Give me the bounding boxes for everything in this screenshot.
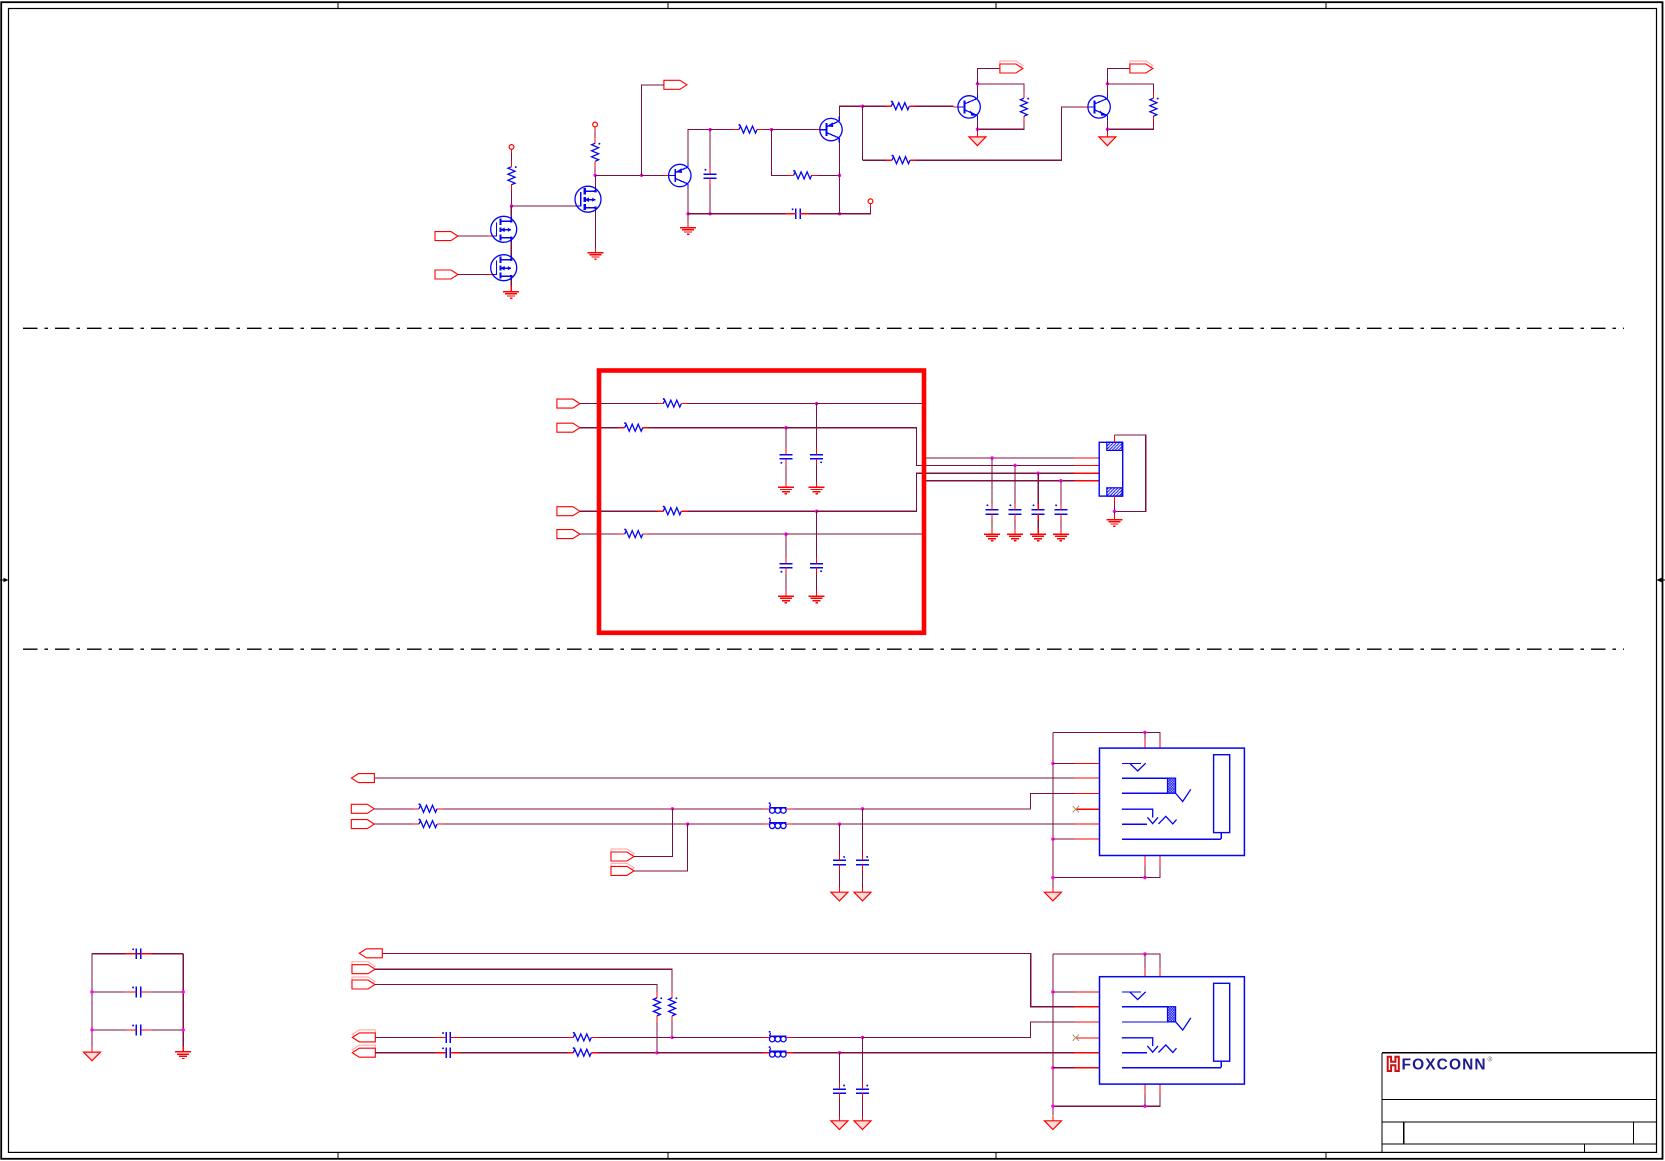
resistor R8: [1150, 92, 1159, 122]
resistor R15: [669, 992, 678, 1022]
junction C1 bottom: [708, 212, 711, 215]
junction bypass C8: [1013, 464, 1016, 467]
ground under C6: [778, 591, 794, 603]
wire EN2 to R16: [375, 985, 657, 992]
capacitor C7: [986, 504, 999, 520]
wire R11 to node J: [687, 510, 816, 512]
connector J2 body: [1100, 748, 1245, 855]
capacitor C16: [435, 1032, 461, 1043]
connector J3 pin2 lead: [1075, 1006, 1100, 1008]
resistor R13: [413, 803, 443, 812]
transistor Q3: [958, 94, 980, 120]
wire Q4 base pin: [1084, 106, 1088, 108]
ground under Q1: [680, 222, 696, 234]
wire VCC2 pin: [594, 127, 596, 132]
connector J3 shield pin top a: [1144, 968, 1146, 977]
wire R16 to node O: [656, 1022, 658, 1053]
wire shield bus 2: [1052, 732, 1054, 887]
junction shield bottom 3: [1143, 1105, 1146, 1108]
svg-text:FOXCONN: FOXCONN: [1402, 1057, 1487, 1074]
capacitor C1: [704, 168, 717, 184]
wire C16 to R17: [459, 1036, 567, 1038]
connector J1 pin4 lead: [1075, 480, 1100, 482]
node H junction: [815, 402, 818, 405]
wire Q1 emitter up: [688, 130, 710, 163]
wire bottom rail right: [809, 213, 839, 215]
connector J3 internal id pin: [1122, 1038, 1177, 1053]
wire Q4 emitter to ground: [1106, 129, 1108, 132]
wire node K to connector line4: [786, 481, 1075, 534]
wire cap drop a 3: [862, 1037, 864, 1083]
ferrite bead FB3a: [763, 1031, 793, 1042]
junction Q4 emitter: [1106, 128, 1109, 131]
wire USB1 dp to R13: [374, 808, 413, 810]
border zone tick bottom 2: [667, 1152, 669, 1158]
wire to C9: [1037, 473, 1039, 504]
connector J2 pin5 lead: [1075, 823, 1100, 825]
connector J3 pin4 lead: [1076, 1037, 1100, 1039]
node F junction: [838, 174, 841, 177]
wire R13 to node L: [443, 808, 672, 810]
port SIG2: [557, 423, 580, 432]
wire C8 to ground: [1014, 520, 1016, 534]
connector J2 shield pin top b: [1159, 739, 1161, 748]
capacitor C6: [779, 558, 792, 574]
junction bypass C9: [1037, 472, 1040, 475]
port IN1: [435, 232, 458, 241]
junction bypass C7: [990, 456, 993, 459]
wire to C10: [1060, 481, 1062, 504]
ferrite bead FB2a: [763, 802, 793, 813]
wire R10 to node I: [649, 427, 786, 429]
junction node F bottom: [838, 212, 841, 215]
node M junction: [686, 822, 689, 825]
wire Q3 collector to OUT2: [977, 69, 1000, 84]
ground under C3: [778, 482, 794, 494]
junction bank right 1: [182, 990, 185, 993]
wire node G rail to R4: [863, 159, 887, 161]
wire VCC2 to R2: [594, 132, 596, 140]
wire USB2 vbus line: [382, 953, 1074, 1006]
wire C9 to ground: [1037, 520, 1039, 534]
title block top line: [1382, 1052, 1656, 1054]
wire M1 drain to node A: [510, 206, 512, 217]
resistor R16: [653, 992, 662, 1022]
wire node I to connector line2: [786, 428, 1075, 466]
wire Q3 collector up: [976, 84, 978, 94]
junction shield bottom 2: [1143, 876, 1146, 879]
title block divider 2: [1382, 1121, 1656, 1123]
capacitor C9: [1032, 504, 1045, 520]
capacitor C2b: [833, 854, 846, 870]
capacitor C18: [125, 948, 151, 959]
wire USB1 vbus line: [375, 777, 1075, 779]
connector J1 pin1 lead: [1075, 457, 1100, 459]
wire node A to M3 gate: [512, 205, 577, 207]
wire FB3b to node: [793, 1052, 840, 1054]
wire node G down: [862, 106, 864, 160]
wire cap bank row3 left: [92, 1029, 125, 1031]
wire Q1 collector to ground: [687, 214, 689, 228]
power symbol VCC2: [593, 122, 598, 127]
resistor R7: [788, 170, 818, 179]
connector J1 pin2 lead: [1075, 464, 1100, 466]
connector J2 internal id pin: [1122, 809, 1177, 824]
connector J1 body: [1099, 442, 1123, 496]
wire shield stub bottom a 3: [1144, 1095, 1146, 1107]
wire M2 source to ground: [510, 280, 512, 292]
ground under Q4: [1099, 132, 1116, 146]
wire R3 to Q3 base: [915, 105, 953, 107]
wire C6 to ground: [785, 574, 787, 597]
wire J1 shield to ground: [1113, 511, 1115, 519]
port OUT2: [1000, 61, 1023, 73]
ferrite bead FB2b: [763, 818, 793, 829]
resistor R10: [619, 422, 649, 431]
connector J3 shield pin bottom a: [1144, 1084, 1146, 1095]
connector J1 pin3 lead: [1075, 472, 1100, 474]
wire Q3 base pin: [954, 106, 958, 108]
ground under C4: [809, 482, 825, 494]
junction data line b 3: [838, 1051, 841, 1054]
ground under C2a: [854, 887, 871, 901]
connector J3 shield pin top b: [1159, 968, 1161, 977]
wire M3 gate pin: [577, 205, 581, 207]
port USB1-DMS: [611, 863, 634, 875]
ground cap bank left: [84, 1047, 101, 1061]
wire R9 to node H: [687, 403, 816, 405]
wire cap a to ground 2: [862, 871, 864, 888]
capacitor C4: [810, 449, 823, 465]
node L junction: [671, 807, 674, 810]
wire node K to C6: [785, 534, 787, 557]
wire SIG1 to R9: [580, 403, 657, 405]
wire FB2a to node: [793, 808, 863, 810]
port USB1-VBUS: [351, 774, 374, 783]
port USB1-DP: [351, 804, 374, 813]
svg-text:®: ®: [1488, 1056, 1493, 1064]
ground under M3: [588, 247, 604, 259]
capacitor C17: [435, 1047, 461, 1058]
junction bank left 2: [90, 1028, 93, 1031]
connector J2 internal data pair: [1122, 778, 1191, 801]
border zone tick top 4: [1325, 2, 1327, 8]
connector J3 pin1 lead: [1075, 991, 1100, 993]
connector J2 pin1 lead: [1075, 762, 1100, 764]
ground under C5: [809, 591, 825, 603]
border center arrow right: [1657, 578, 1665, 582]
no-connect pin4 3: [1073, 1035, 1079, 1041]
node O junction: [655, 1051, 658, 1054]
port USB1-DPS: [611, 849, 634, 861]
wire R12 to node K: [649, 533, 786, 535]
wire USB2 dm to C cap: [375, 1052, 437, 1054]
power symbol VCC3: [868, 199, 873, 204]
wire shield stub bottom a 2: [1144, 866, 1146, 878]
border center arrow left: [0, 578, 9, 582]
wire shield top 3: [1053, 954, 1160, 968]
wire node C to OUT1: [642, 85, 664, 176]
no-connect pin4 2: [1073, 806, 1079, 812]
wire C7 to ground: [991, 520, 993, 534]
wire SIG3 to R11: [580, 510, 657, 512]
port SIG4: [557, 530, 580, 539]
wire data a to jog 3: [863, 1022, 1075, 1038]
wire cap bank row3 right: [151, 1029, 183, 1031]
wire rail to PWR3: [840, 208, 871, 213]
wire M3 drain to node B: [595, 175, 597, 187]
wire node F to bottom rail: [839, 175, 841, 213]
wire C10 to ground: [1060, 520, 1062, 534]
wire R1 to node A: [511, 191, 513, 206]
wire Q4 emitter down: [1106, 120, 1108, 129]
connector J2 pin4 lead: [1076, 808, 1100, 810]
border zone tick bottom 3: [995, 1152, 997, 1158]
ground under C8: [1007, 529, 1023, 541]
wire C5 to ground: [816, 574, 818, 597]
ground under M2: [503, 286, 519, 298]
resistor R1: [508, 161, 517, 191]
border zone tick top 1: [337, 2, 339, 8]
junction Q3 emitter: [976, 128, 979, 131]
wire data a to jog 2: [863, 793, 1075, 809]
wire FB2b to node: [793, 823, 840, 825]
wire C4 to ground: [816, 465, 818, 488]
title block divider 3: [1382, 1143, 1656, 1145]
connector J2 shield pin top a: [1144, 739, 1146, 748]
wire node D to R6: [710, 129, 733, 131]
node K junction: [784, 532, 787, 535]
wire EN1 to R15: [375, 969, 672, 992]
wire node I to C3: [785, 428, 787, 449]
resistor R2: [592, 137, 601, 167]
connector J1 shield pin top: [1113, 435, 1115, 442]
connector J1 shield pad bottom: [1107, 488, 1122, 496]
title block vertical b: [1633, 1122, 1635, 1144]
wire node H to C4: [816, 404, 818, 449]
section divider dash-dot upper: [23, 327, 1624, 329]
wire VCC1 pin: [511, 149, 513, 153]
wire cap bank row2 left: [92, 991, 125, 993]
wire Q3 emitter to ground: [976, 129, 978, 132]
connector J2 shield pin bottom a: [1144, 856, 1146, 867]
junction data line a 3: [861, 1036, 864, 1039]
junction shield bus bottom 2: [1051, 876, 1054, 879]
junction shield top 2: [1143, 731, 1146, 734]
port USB2-EN2: [352, 977, 375, 989]
port SIG1: [557, 399, 580, 408]
wire shield top 2: [1053, 732, 1160, 739]
capacitor C3b: [833, 1083, 846, 1099]
wire IN2 to M2 gate: [458, 274, 488, 276]
wire R8 to Q4 emitter: [1107, 122, 1153, 130]
border zone tick bottom 1: [337, 1152, 339, 1158]
wire to C7: [991, 458, 993, 504]
wire cap bank top: [92, 953, 183, 955]
resistor R9: [657, 398, 687, 407]
junction data line b 2: [838, 822, 841, 825]
junction J1 shield: [1113, 510, 1116, 513]
wire node N to FB: [672, 1036, 763, 1038]
wire C1 to bottom rail: [709, 184, 711, 213]
wire M2 gate pin: [488, 274, 493, 276]
wire bottom rail left: [688, 213, 787, 215]
wire cap drop b 3: [838, 1053, 840, 1083]
wire shield bottom 3: [1053, 1095, 1160, 1107]
resistor R17: [567, 1032, 597, 1041]
junction pin6 3: [1051, 1066, 1054, 1069]
title block divider 1: [1382, 1098, 1656, 1100]
ground shield 2: [1044, 887, 1061, 901]
wire cap b to ground 3: [838, 1099, 840, 1116]
wire shield bottom 2: [1053, 866, 1160, 878]
wire M1 source to M2 drain: [510, 242, 512, 256]
wire shield stub top a 2: [1144, 732, 1146, 739]
ground under C2b: [831, 887, 848, 901]
port USB1-DM: [351, 820, 374, 829]
node E junction: [770, 128, 773, 131]
resistor R6: [733, 124, 763, 133]
capacitor C5: [810, 558, 823, 574]
junction bypass C10: [1059, 479, 1062, 482]
ground under C7: [984, 529, 1000, 541]
transistor Q2: [820, 117, 842, 143]
wire Q2 base pin: [816, 129, 820, 131]
wire C3 to ground: [785, 465, 787, 488]
ground under C3b: [831, 1116, 848, 1130]
wire PWR3 pin: [870, 204, 872, 209]
node A junction: [510, 204, 513, 207]
connector J2 shield pin bottom b: [1159, 856, 1161, 867]
wire data b to pin5 3: [839, 1052, 1074, 1054]
capacitor C10: [1054, 504, 1067, 520]
wire node H to connector line1: [817, 404, 1075, 458]
connector J3 shield pin bottom b: [1159, 1084, 1161, 1095]
connector J2 internal gnd line: [1122, 833, 1221, 840]
wire shield bus 3: [1052, 954, 1054, 1116]
junction shield top 3: [1143, 952, 1146, 955]
wire node O to FB: [657, 1052, 763, 1054]
junction pin1 3: [1051, 990, 1054, 993]
wire R5 to Q3 emitter: [977, 122, 1024, 130]
wire M3 source to ground: [595, 212, 597, 253]
wire pin6 3: [1053, 1067, 1075, 1069]
wire Q3 emitter down: [976, 120, 978, 129]
connector J3 pin5 lead: [1075, 1052, 1100, 1054]
wire cap bank left rail: [91, 954, 93, 1048]
wire Q1 base pin: [664, 175, 668, 177]
title block vertical a: [1403, 1122, 1405, 1144]
border zone tick bottom 4: [1325, 1152, 1327, 1158]
wire pin1 3: [1053, 991, 1075, 993]
node J junction: [815, 510, 818, 513]
junction bank left 1: [90, 990, 93, 993]
wire M1 gate pin: [488, 235, 493, 237]
node N junction: [670, 1036, 673, 1039]
wire J1 shield pin bottom to node: [1113, 504, 1115, 512]
wire R7 to node F: [818, 174, 840, 176]
wire R14 to node M: [443, 823, 688, 825]
connector J3 internal data pair: [1122, 1007, 1191, 1030]
capacitor C20: [125, 1025, 151, 1036]
Foxconn logo H mark: [1388, 1057, 1399, 1071]
resistor R3: [885, 101, 915, 110]
connector J1 shield pin bottom: [1113, 496, 1115, 504]
wire SIG4 to R12: [580, 533, 619, 535]
connector J2 receptacle: [1214, 755, 1230, 833]
port OUT1: [664, 80, 687, 89]
wire pin1 2: [1053, 762, 1075, 764]
transistor Q1: [669, 163, 691, 189]
connector J2 pin2 lead: [1075, 777, 1100, 779]
ground under Q3: [969, 132, 986, 146]
resistor R4: [886, 155, 916, 164]
wire cap bank right rail: [182, 954, 184, 1047]
node D junction: [708, 128, 711, 131]
title block left line: [1381, 1053, 1383, 1153]
node G junction: [861, 105, 864, 108]
power symbol VCC1: [509, 145, 514, 150]
connector J3 pin6 lead: [1075, 1067, 1100, 1069]
wire to C8: [1014, 465, 1016, 504]
wire IN1 to M1 gate: [458, 235, 488, 237]
capacitor C2: [785, 208, 811, 219]
connector J3 receptacle: [1214, 983, 1230, 1061]
capacitor C8: [1009, 504, 1022, 520]
wire cap a to ground 3: [862, 1099, 864, 1116]
wire node G to R3: [863, 105, 886, 107]
wire SIG2 to R10: [580, 427, 619, 429]
wire FB3a to node: [793, 1036, 863, 1038]
transistor Q4: [1088, 94, 1110, 120]
connector J1 shield pad top: [1107, 442, 1122, 450]
junction pin1 2: [1051, 762, 1054, 765]
node I junction: [784, 426, 787, 429]
ground under C10: [1053, 529, 1069, 541]
ground cap bank right: [175, 1046, 191, 1058]
wire node E to Q2 base: [771, 129, 815, 131]
wire node M to FB: [688, 823, 763, 825]
wire cap bank row2 right: [151, 991, 183, 993]
mosfet M2: [491, 255, 517, 281]
junction Q3 collector: [976, 82, 979, 85]
capacitor C19: [125, 987, 151, 998]
resistor R18: [567, 1047, 597, 1056]
wire USB2 dp to C cap: [375, 1036, 437, 1038]
connector J2 internal vbus arrow: [1122, 763, 1146, 771]
wire cap drop b 2: [838, 824, 840, 854]
connector J3 body: [1100, 977, 1245, 1084]
wire node J to C5: [816, 511, 818, 557]
wire R2 to node B: [594, 167, 596, 175]
ground under C9: [1030, 529, 1046, 541]
junction data line a 2: [861, 807, 864, 810]
wire Q2 emitter up: [839, 106, 862, 116]
wire R4 to Q4 base: [916, 107, 1084, 160]
junction pin6 2: [1051, 837, 1054, 840]
border zone tick top 2: [667, 2, 669, 8]
wire Q1 collector down: [687, 189, 689, 214]
resistor R11: [657, 506, 687, 515]
connector J3 pin3 lead: [1075, 1021, 1100, 1023]
junction Q1 collector node: [686, 212, 689, 215]
wire node C to Q1 base: [642, 175, 665, 177]
wire R17 to node N: [597, 1036, 672, 1038]
capacitor C2a: [856, 854, 869, 870]
wire VCC1 to R1: [511, 153, 513, 160]
wire node L to FB: [672, 808, 762, 810]
wire Q4 collector to OUT3: [1107, 69, 1130, 84]
